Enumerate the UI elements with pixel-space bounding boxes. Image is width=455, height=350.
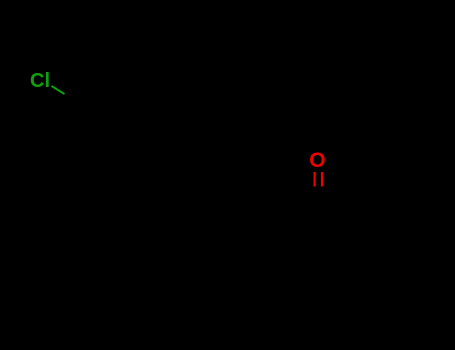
- svg-text:O: O: [309, 149, 325, 172]
- svg-text:Cl: Cl: [30, 70, 50, 92]
